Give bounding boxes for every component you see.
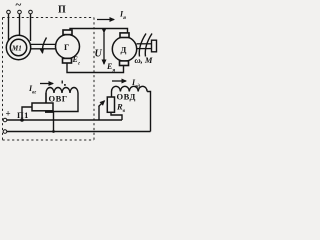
Г top brush — [63, 30, 72, 35]
svg-text:+: + — [6, 109, 11, 119]
Д top brush — [120, 33, 129, 38]
rheostat tap wire — [98, 106, 100, 120]
П1 right lead wire down to minus bus — [53, 111, 55, 132]
supply terminal 1 — [7, 10, 11, 14]
П1 right lead bar — [45, 111, 54, 113]
svg-text:U: U — [95, 49, 103, 60]
wire Г bottom to Д bottom — [67, 63, 124, 73]
supply terminal 2 — [18, 10, 22, 14]
svg-text:ОВД: ОВД — [117, 92, 136, 102]
ОВД right lead wire — [147, 92, 150, 132]
Г bottom brush — [63, 58, 72, 63]
svg-text:Г: Г — [64, 42, 69, 52]
svg-text:П1: П1 — [17, 110, 29, 120]
Д bottom brush — [120, 61, 129, 66]
wire Г top to Д top — [70, 29, 128, 34]
shaft rotation arrow — [42, 38, 46, 54]
wire phase 3 — [30, 14, 32, 41]
svg-text:Д: Д — [121, 45, 127, 55]
junction dot on minus bus — [52, 130, 55, 133]
svg-text:~: ~ — [16, 0, 22, 11]
Д shaft end coupling — [152, 40, 157, 52]
shaft M1-Г — [31, 44, 56, 48]
rheostat tap arrow — [99, 101, 105, 107]
dashed enclosure box П — [3, 18, 95, 141]
Д shaft — [137, 44, 152, 49]
DC terminal - — [3, 130, 7, 134]
svg-text:М1: М1 — [11, 45, 22, 53]
ОВГ return wire — [54, 93, 79, 112]
П1 wiper wire to ОВГ — [45, 93, 47, 103]
plus bus riser to Rв — [111, 112, 122, 120]
scan specks — [62, 81, 64, 84]
resistor Rв — [107, 97, 114, 112]
motor Д — [112, 37, 136, 61]
rotation arc 2 on Д shaft — [145, 34, 152, 57]
junction dot on plus bus — [20, 118, 24, 122]
ОВД left lead wire — [111, 92, 113, 98]
field winding ОВД coil — [112, 86, 148, 91]
supply terminal 3 — [29, 10, 33, 14]
current arrow Iвг — [40, 83, 53, 85]
wire phase 2 — [19, 14, 21, 36]
current arrow Iвд — [112, 80, 126, 82]
field winding ОВГ coil — [46, 88, 78, 93]
generator Г — [56, 35, 80, 59]
rotation arc 1 on Д shaft — [139, 34, 146, 57]
П1 left lead wire — [22, 107, 32, 120]
plus bus wire — [7, 119, 122, 121]
wire phase 1 — [8, 14, 10, 41]
potentiometer П1 — [32, 103, 53, 111]
svg-text:ω, М: ω, М — [135, 55, 153, 65]
svg-text:ОВГ: ОВГ — [49, 94, 68, 104]
current arrow Iя — [97, 19, 114, 21]
svg-text:П: П — [58, 5, 66, 16]
minus bus wire — [7, 131, 151, 133]
motor M1 — [6, 35, 30, 59]
voltage arrow U / Eя — [103, 33, 105, 65]
